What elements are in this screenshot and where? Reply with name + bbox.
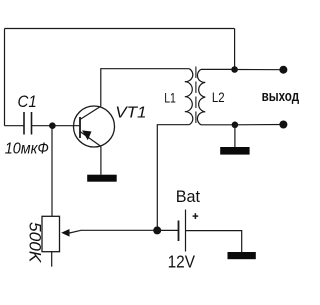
battery Bat: [179, 210, 199, 252]
transformer core: [195, 67, 197, 127]
wire top rail drop to L2 top node: [234, 29, 236, 70]
output terminal bottom dot: [279, 121, 287, 129]
wire node A down to potentiometer R1: [51, 126, 53, 217]
wire collector to L1 top: [101, 69, 189, 107]
ground (battery): [228, 252, 256, 259]
potentiometer R1 wiper arrow: [61, 229, 69, 237]
node B junction dot: [153, 226, 161, 234]
svg-text:Bat: Bat: [176, 186, 201, 205]
svg-text:VT1: VT1: [115, 103, 146, 121]
svg-text:12V: 12V: [168, 253, 195, 272]
wire L1 bottom to battery junction node B: [157, 125, 189, 231]
wire L2 top to node: [201, 68, 235, 70]
wire L2 top node to output terminal: [235, 69, 284, 71]
wire node A to VT1 base: [52, 125, 79, 127]
node A junction dot: [49, 122, 56, 129]
node L2 top junction dot: [231, 66, 238, 73]
wire emitter to ground: [100, 146, 102, 174]
svg-text:L1: L1: [164, 90, 176, 106]
wire L2 bottom to node: [201, 124, 235, 126]
output terminal top dot: [279, 66, 287, 74]
wire node B to battery: [157, 229, 178, 231]
ground (transformer): [220, 147, 249, 155]
wire left rail (C1 to top-left corner): [4, 29, 6, 126]
potentiometer R1 body: [42, 216, 60, 251]
svg-text:C1: C1: [18, 93, 37, 111]
potentiometer R1 bottom lead: [51, 252, 53, 267]
wire top rail: [5, 28, 235, 30]
wire wiper to node B: [70, 230, 158, 233]
svg-text:500K: 500K: [26, 222, 45, 263]
svg-text:10мкФ: 10мкФ: [5, 140, 49, 158]
wire battery to ground: [186, 231, 242, 252]
wire C1 right plate to node A: [32, 125, 53, 127]
transistor VT1: [74, 106, 115, 147]
node L2 bottom junction dot: [232, 122, 239, 129]
ground (emitter): [87, 175, 117, 182]
svg-text:выход: выход: [262, 88, 300, 105]
inductor L2: [197, 69, 205, 124]
inductor L1: [185, 69, 193, 125]
capacitor C1: [24, 112, 32, 135]
wire left rail to C1 left plate: [5, 125, 24, 127]
wire L2 bottom node to ground: [234, 125, 236, 147]
svg-text:L2: L2: [212, 90, 225, 105]
wire L2 bottom node to output terminal: [235, 124, 284, 126]
